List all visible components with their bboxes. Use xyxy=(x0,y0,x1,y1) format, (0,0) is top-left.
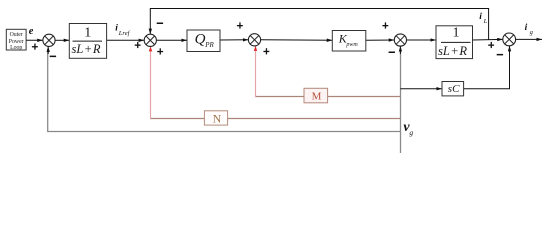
svg-text:Power: Power xyxy=(9,39,24,45)
svg-text:i: i xyxy=(525,23,528,33)
svg-text:sL+R: sL+R xyxy=(72,42,101,56)
svg-text:sL+R: sL+R xyxy=(438,44,467,58)
svg-text:1: 1 xyxy=(453,26,460,41)
svg-text:M: M xyxy=(312,91,322,103)
svg-text:L: L xyxy=(483,18,488,25)
svg-text:Lref: Lref xyxy=(118,30,131,37)
svg-text:pwm: pwm xyxy=(345,42,358,48)
svg-text:g: g xyxy=(409,128,413,137)
svg-text:1: 1 xyxy=(84,26,91,41)
svg-text:N: N xyxy=(213,111,222,125)
svg-text:e: e xyxy=(29,26,34,37)
svg-text:Q: Q xyxy=(195,32,206,48)
svg-text:PR: PR xyxy=(204,41,214,49)
svg-text:sC: sC xyxy=(448,83,460,95)
svg-text:Loop: Loop xyxy=(10,45,22,51)
svg-text:i: i xyxy=(479,12,482,22)
svg-text:Outer: Outer xyxy=(10,32,23,38)
